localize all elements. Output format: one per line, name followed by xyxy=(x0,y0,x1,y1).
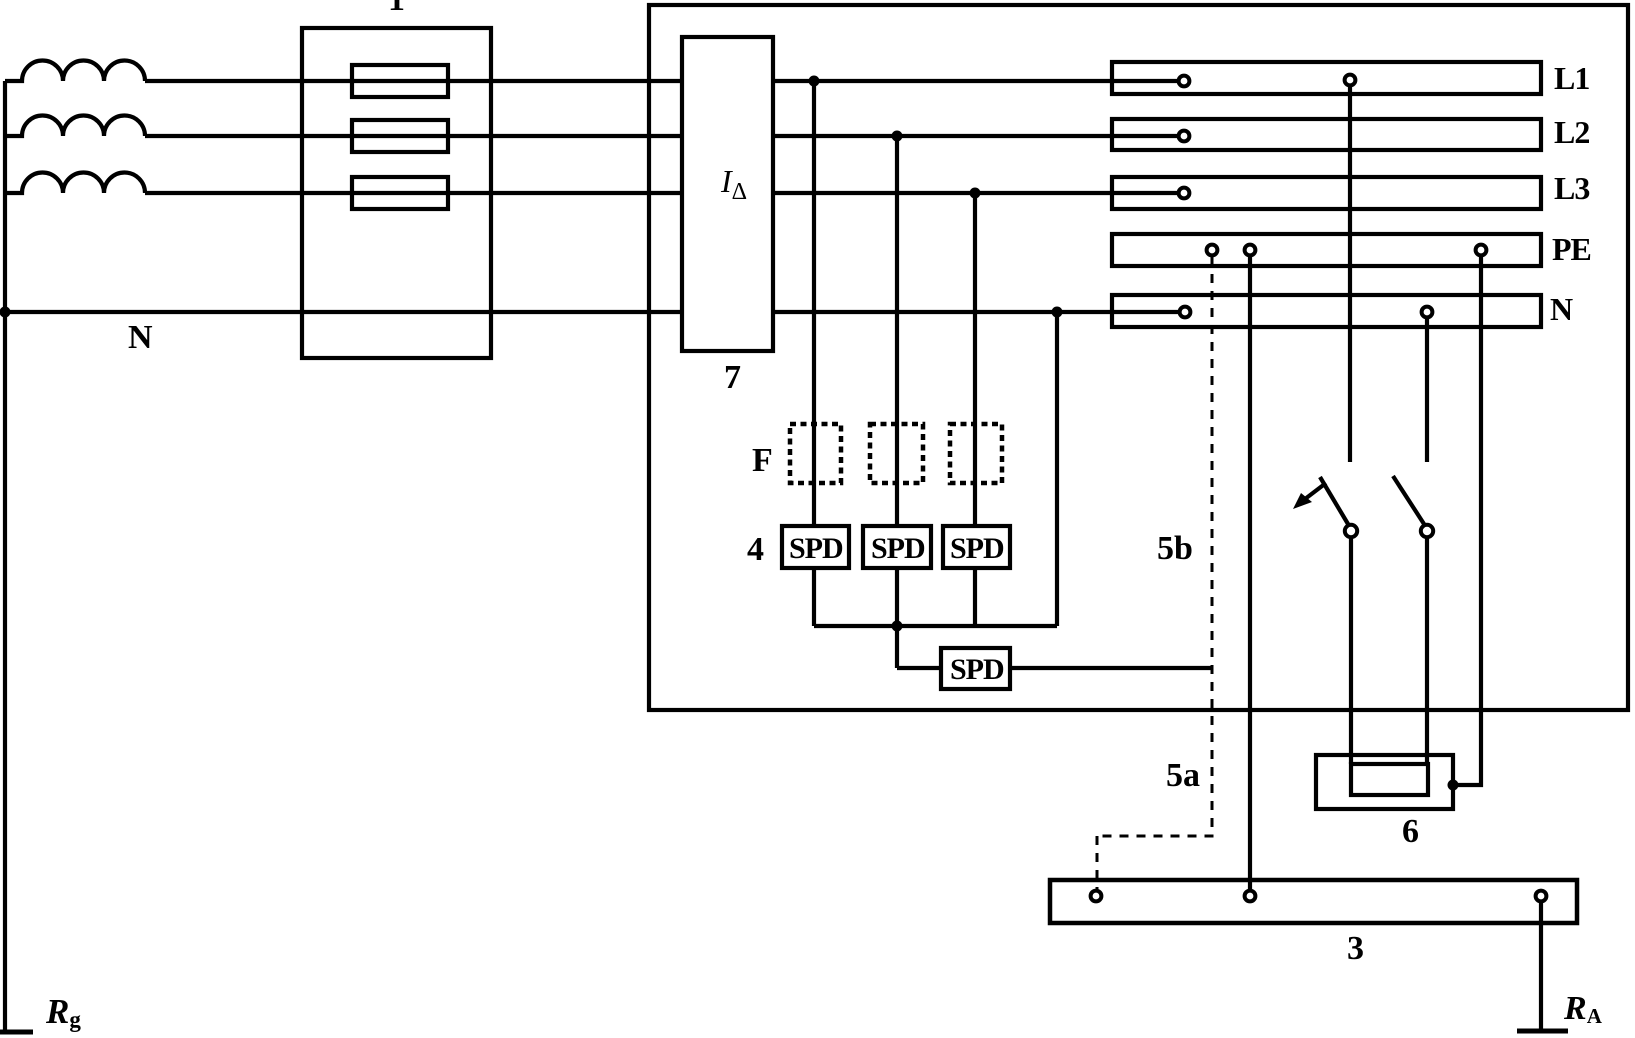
disconnector F dashed box 1 xyxy=(790,424,841,483)
wire SPD2 bottom xyxy=(895,568,899,668)
wire SPD3 bottom xyxy=(973,568,977,626)
wire SPD1 bottom xyxy=(812,568,816,626)
node box6 right xyxy=(1448,780,1459,791)
node SPD bus xyxy=(892,621,903,632)
fuse box 1 xyxy=(302,28,491,358)
fuse F2 xyxy=(352,120,448,152)
terminal bar3 right xyxy=(1536,891,1547,902)
svg-text:N: N xyxy=(128,319,153,356)
terminal L2 in xyxy=(1179,131,1190,142)
terminal PE tap 5b xyxy=(1207,245,1218,256)
terminal L3 in xyxy=(1179,188,1190,199)
switch S2 hinge xyxy=(1421,525,1433,537)
switch S2 blade xyxy=(1393,476,1424,524)
svg-text:N: N xyxy=(1550,291,1573,327)
wire N tap drop to switch xyxy=(1425,319,1429,462)
terminal bar3 left xyxy=(1091,891,1102,902)
winding L1 coil xyxy=(5,60,145,81)
switch S1 arrowhead xyxy=(1293,493,1312,509)
wire L3 drop xyxy=(973,193,977,526)
earth bar 3 xyxy=(1050,880,1577,923)
busbar L3 xyxy=(1112,177,1541,209)
svg-text:SPD: SPD xyxy=(789,532,843,565)
wire 5a dashed to bar 3 xyxy=(1096,836,1099,890)
bonding bar 6 inner xyxy=(1351,764,1428,795)
wire L1 line xyxy=(145,79,682,83)
wire L1 tap drop to switch xyxy=(1348,87,1352,462)
svg-text:PE: PE xyxy=(1552,231,1591,267)
svg-text:5a: 5a xyxy=(1166,757,1200,794)
SPD 1 box xyxy=(782,526,849,568)
svg-text:L1: L1 xyxy=(1554,60,1589,96)
switch S1 hinge xyxy=(1345,525,1357,537)
terminal N in xyxy=(1180,307,1191,318)
node L3 tap xyxy=(970,188,981,199)
switch S1 blade xyxy=(1320,477,1348,524)
wire RA earth xyxy=(1539,903,1543,1031)
terminal L1 tap xyxy=(1345,75,1356,86)
SPD 2 box xyxy=(863,526,931,568)
enclosure box xyxy=(649,5,1628,710)
wire PE right drop xyxy=(1455,257,1481,785)
svg-text:7: 7 xyxy=(724,359,741,396)
svg-text:F: F xyxy=(752,442,773,479)
terminal L1 in xyxy=(1179,76,1190,87)
wire 5a dashed horizontal xyxy=(1097,835,1214,838)
fuse F1 xyxy=(352,65,448,97)
SPD 4 box xyxy=(941,648,1010,689)
fuse F3 xyxy=(352,177,448,209)
disconnector F dashed box 2 xyxy=(870,424,923,483)
SPD 3 box xyxy=(943,526,1010,568)
disconnector F dashed box 3 xyxy=(950,424,1002,483)
winding L2 coil xyxy=(5,116,145,137)
svg-text:6: 6 xyxy=(1402,813,1419,850)
wire S1 to bar 6 xyxy=(1349,538,1353,764)
busbar N xyxy=(1112,295,1541,327)
RCD 7 box xyxy=(682,37,773,351)
ground Rg foot xyxy=(0,1030,33,1035)
busbar L2 xyxy=(1112,119,1541,150)
terminal PE tap right xyxy=(1476,245,1487,256)
wire S2 to bar 6 xyxy=(1425,538,1429,764)
winding L3 coil xyxy=(5,172,145,193)
switch S1 arrow shaft xyxy=(1305,483,1326,499)
node L1 tap xyxy=(809,76,820,87)
wire PE main drop xyxy=(1248,257,1252,889)
wire SPD4 to 5b xyxy=(1010,666,1213,670)
svg-text:5b: 5b xyxy=(1157,530,1193,567)
wire L2 line xyxy=(145,134,682,138)
svg-text:4: 4 xyxy=(747,531,764,568)
ground RA foot xyxy=(1517,1029,1568,1034)
svg-text:1: 1 xyxy=(388,0,405,18)
wire to SPD4 xyxy=(897,666,941,670)
wire N line xyxy=(5,310,682,314)
busbar L1 xyxy=(1112,62,1541,94)
node L2 tap xyxy=(892,131,903,142)
busbar PE xyxy=(1112,234,1541,266)
wire 5b dashed conductor xyxy=(1211,257,1214,836)
node N tap xyxy=(1052,307,1063,318)
wire N drop xyxy=(1055,312,1059,626)
svg-text:Rg: Rg xyxy=(45,992,81,1032)
wire: source vertical bus to earth xyxy=(3,81,7,1032)
svg-text:SPD: SPD xyxy=(871,532,925,565)
wire L2 drop xyxy=(895,136,899,526)
node N source tap xyxy=(0,307,11,318)
terminal bar3 mid xyxy=(1245,891,1256,902)
wire SPD common bus xyxy=(814,624,1057,628)
terminal PE tap main xyxy=(1245,245,1256,256)
svg-text:SPD: SPD xyxy=(950,532,1004,565)
terminal N tap xyxy=(1422,307,1433,318)
wire L3 line xyxy=(145,191,682,195)
svg-text:L3: L3 xyxy=(1554,170,1589,206)
svg-text:IΔ: IΔ xyxy=(720,163,747,205)
svg-text:SPD: SPD xyxy=(950,653,1004,686)
svg-text:L2: L2 xyxy=(1554,114,1589,150)
wire L1 drop xyxy=(812,81,816,526)
bonding box 6 outer xyxy=(1316,755,1453,809)
svg-text:RA: RA xyxy=(1563,990,1603,1028)
svg-text:3: 3 xyxy=(1347,930,1364,967)
